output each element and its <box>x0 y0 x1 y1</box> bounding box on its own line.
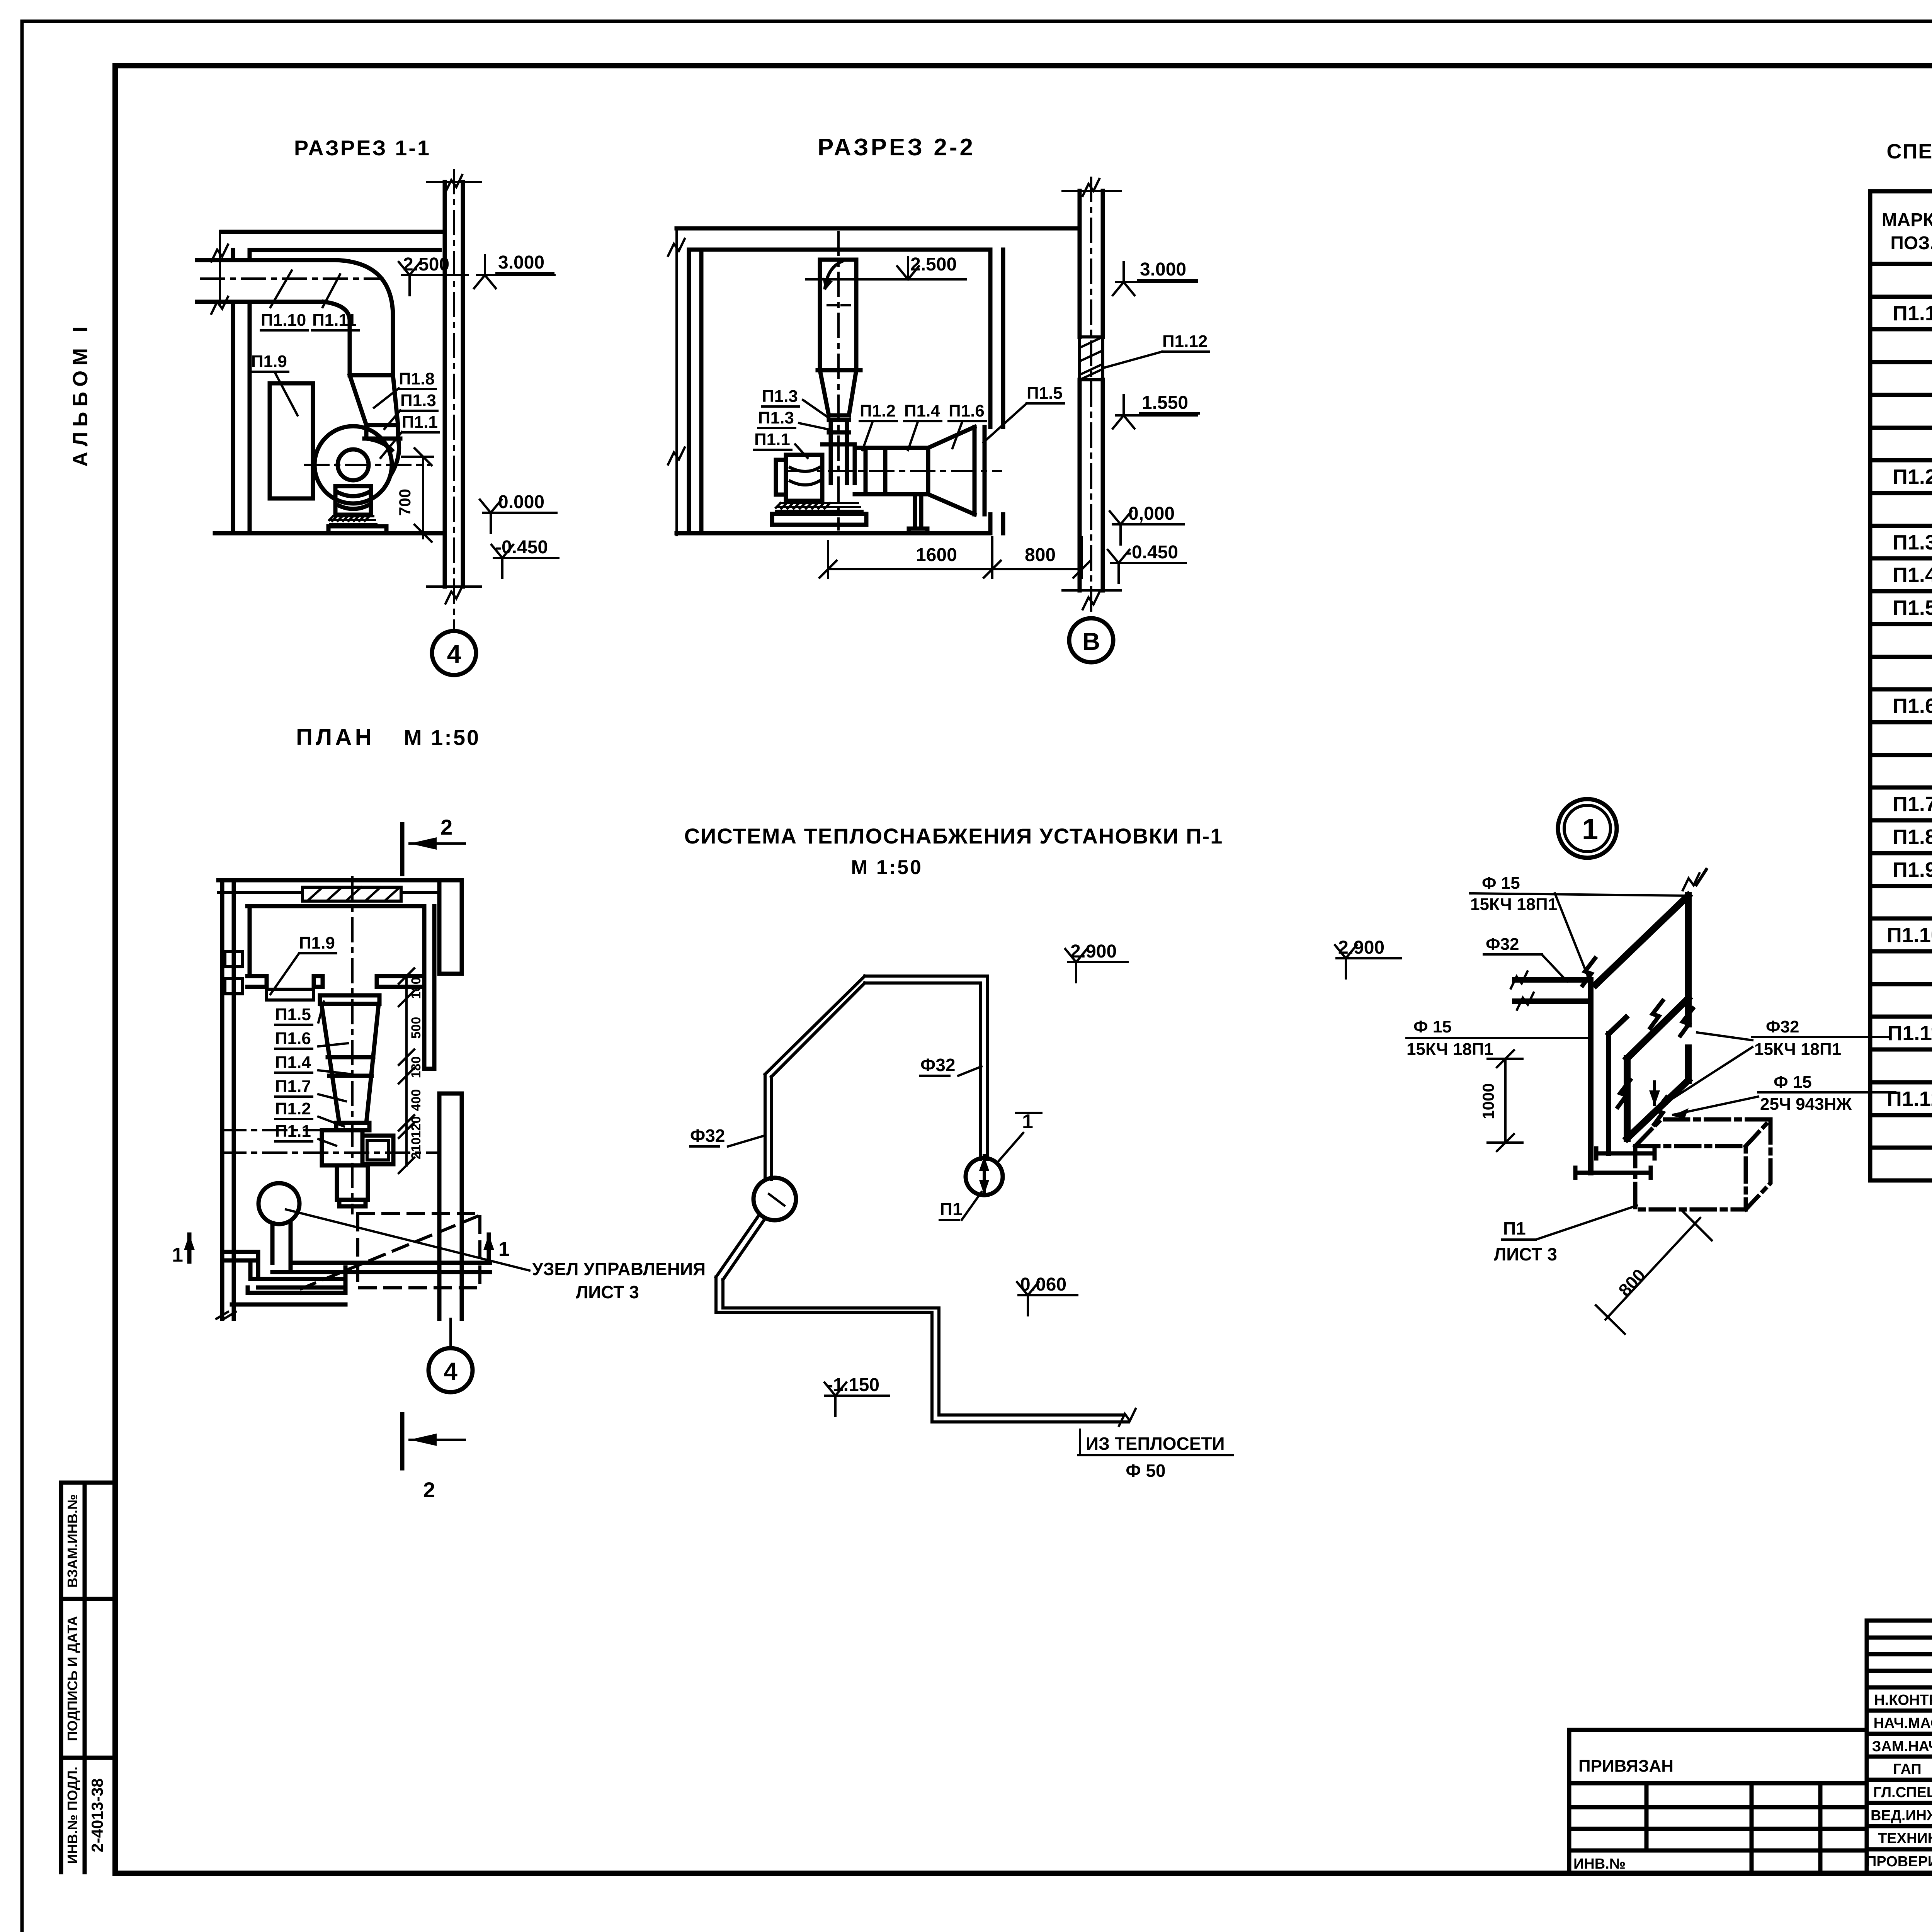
horizontal duct run: flex П1.2, kalorifer П1.4 <box>855 448 928 494</box>
PLAN M 1:50 <box>172 724 706 1502</box>
svg-text:РАЗРЕЗ 2-2: РАЗРЕЗ 2-2 <box>818 134 975 161</box>
horizontal supply duct <box>197 260 335 302</box>
section mark 2 bottom <box>400 1414 405 1468</box>
vertical duct <box>350 317 393 375</box>
specification table rows text <box>1887 269 1932 1143</box>
column on axis B <box>1080 191 1103 590</box>
svg-text:П1.8: П1.8 <box>399 369 435 388</box>
chamber inner walls <box>250 906 434 1069</box>
svg-text:П1.5: П1.5 <box>275 1005 311 1024</box>
svg-text:2.900: 2.900 <box>1070 941 1117 962</box>
flexible insert П1.3 <box>364 425 400 439</box>
signature rows text <box>1866 1692 1932 1870</box>
svg-text:П1.4: П1.4 <box>904 401 940 420</box>
svg-text:П1.5: П1.5 <box>1027 384 1063 403</box>
svg-text:П1.3: П1.3 <box>758 408 794 427</box>
svg-text:700: 700 <box>396 489 414 516</box>
stack axis <box>837 232 840 529</box>
door П1.9 <box>270 383 313 498</box>
svg-text:РАЗРЕЗ 1-1: РАЗРЕЗ 1-1 <box>294 136 431 160</box>
svg-text:400: 400 <box>409 1089 423 1111</box>
second riser (thin) <box>1609 1017 1626 1153</box>
DETAIL NODE 1 <box>1335 799 1895 1334</box>
svg-text:210: 210 <box>409 1138 423 1160</box>
svg-text:П1.3: П1.3 <box>762 387 798 406</box>
svg-text:П1.4: П1.4 <box>1893 563 1932 587</box>
svg-text:П1.1: П1.1 <box>402 413 438 432</box>
svg-text:П1.1: П1.1 <box>754 430 790 449</box>
fan flange plate <box>336 1123 369 1130</box>
support leg <box>909 494 927 533</box>
title block left extension table <box>1569 1730 1867 1872</box>
ceiling slab <box>677 228 1080 250</box>
dimension 1600 / 800 <box>828 537 1082 578</box>
axis circle 4 (plan) <box>449 1319 452 1348</box>
svg-text:П1.11: П1.11 <box>312 311 357 330</box>
svg-text:МАРКА: МАРКА <box>1882 210 1932 230</box>
svg-text:500: 500 <box>409 1017 423 1039</box>
panel left vertical <box>1624 1058 1631 1138</box>
svg-text:В: В <box>1082 628 1100 655</box>
svg-text:800: 800 <box>1025 545 1056 565</box>
svg-text:Ф 15: Ф 15 <box>1482 874 1520 893</box>
pipe run (double line) <box>865 976 988 1159</box>
svg-text:Ф32: Ф32 <box>920 1055 955 1075</box>
svg-text:-0.450: -0.450 <box>1126 542 1178 563</box>
svg-text:СПЕЦИФИКАЦИЯ ОТОПИТЕЛЬНО-ВЕНТ: СПЕЦИФИКАЦИЯ ОТОПИТЕЛЬНО-ВЕНТИЛЯЦИОННЫХ … <box>1886 140 1932 163</box>
left dim line with breaks <box>219 231 221 304</box>
svg-text:ЛИСТ 3: ЛИСТ 3 <box>576 1282 639 1302</box>
left wall <box>222 880 234 1319</box>
svg-text:-1.150: -1.150 <box>827 1375 879 1395</box>
svg-text:Н.КОНТР.: Н.КОНТР. <box>1874 1692 1932 1708</box>
svg-text:2.900: 2.900 <box>1338 937 1384 958</box>
svg-text:П1.1: П1.1 <box>275 1122 311 1141</box>
base plate <box>772 514 866 525</box>
wall end marks <box>216 1312 236 1319</box>
vibration isolators <box>776 503 862 511</box>
svg-text:ПОЗ.: ПОЗ. <box>1890 233 1932 253</box>
svg-text:П1.11: П1.11 <box>1888 1022 1932 1045</box>
motor under fan <box>335 486 371 515</box>
svg-text:П1.10: П1.10 <box>261 311 306 330</box>
vertical text АЛЬБОМ I <box>69 321 92 467</box>
svg-text:УЗЕЛ УПРАВЛЕНИЯ: УЗЕЛ УПРАВЛЕНИЯ <box>532 1259 706 1279</box>
svg-text:П1.12: П1.12 <box>1887 1087 1932 1111</box>
RAZREZ 1-1 <box>197 136 558 675</box>
leader to узел управления text <box>286 1209 529 1270</box>
floor line <box>215 531 440 536</box>
svg-text:1000: 1000 <box>1479 1083 1497 1119</box>
svg-text:П1.12: П1.12 <box>1162 332 1207 351</box>
top diagonal pipe <box>1596 896 1688 985</box>
right outer wall segments <box>439 880 462 1319</box>
svg-text:120: 120 <box>409 1116 423 1138</box>
svg-text:1: 1 <box>172 1244 183 1266</box>
section marks 1 <box>187 1235 192 1262</box>
panel bottom diagonal <box>1627 1080 1688 1138</box>
svg-text:2-4013-38: 2-4013-38 <box>88 1778 106 1852</box>
supply pipes from left <box>1515 980 1591 1001</box>
svg-text:П1.7: П1.7 <box>275 1077 311 1096</box>
svg-text:П1.2: П1.2 <box>1893 465 1932 488</box>
svg-text:П1.2: П1.2 <box>860 401 896 420</box>
valve П1 circle with arrow <box>966 1158 1003 1195</box>
base plate <box>328 526 386 533</box>
vibration isolators <box>329 516 376 524</box>
svg-text:0,000: 0,000 <box>1128 503 1175 524</box>
svg-text:15КЧ 18П1: 15КЧ 18П1 <box>1406 1040 1493 1059</box>
left thin line with breaks <box>675 228 678 535</box>
left wall <box>689 250 701 533</box>
specification table grid <box>1870 191 1932 1180</box>
svg-text:1600: 1600 <box>916 545 957 565</box>
svg-text:П1.9: П1.9 <box>299 934 335 952</box>
specification table header <box>1882 210 1932 253</box>
svg-text:ГАП: ГАП <box>1893 1761 1921 1777</box>
flow arrow on bottom diagonal <box>1653 1082 1656 1104</box>
svg-text:ПРОВЕРИЛ: ПРОВЕРИЛ <box>1866 1854 1932 1870</box>
svg-text:0.060: 0.060 <box>1020 1274 1066 1295</box>
svg-text:15КЧ 18П1: 15КЧ 18П1 <box>1754 1040 1841 1059</box>
column on axis 4 <box>445 182 463 587</box>
svg-text:-0.450: -0.450 <box>495 537 548 558</box>
svg-text:ИЗ ТЕПЛОСЕТИ: ИЗ ТЕПЛОСЕТИ <box>1086 1434 1225 1454</box>
RAZREZ 2-2 <box>668 134 1209 662</box>
door П1.9 leaf <box>267 989 314 1000</box>
top wall band <box>218 880 462 906</box>
transition cone (plan) <box>321 1004 379 1123</box>
exhaust stack duct <box>818 260 861 432</box>
svg-text:2.500: 2.500 <box>403 254 449 275</box>
svg-text:ИНВ.№ ПОДЛ.: ИНВ.№ ПОДЛ. <box>65 1767 80 1864</box>
svg-text:СИСТЕМА ТЕПЛОСНАБЖЕНИЯ УСТАНОВ: СИСТЕМА ТЕПЛОСНАБЖЕНИЯ УСТАНОВКИ П-1 <box>684 824 1223 848</box>
dim 700 <box>402 448 433 542</box>
svg-text:3.000: 3.000 <box>498 252 544 273</box>
right wall with damper <box>990 250 1003 533</box>
grille П1.12 hatched <box>1080 337 1103 380</box>
fan centerline <box>305 464 429 466</box>
south chamber wall with openings <box>247 976 424 987</box>
fan П1.1 scroll <box>315 426 392 503</box>
svg-text:П1.3: П1.3 <box>400 391 436 410</box>
riser vertical <box>1588 980 1594 1173</box>
outlet below fan (plan) <box>337 1165 368 1206</box>
motor (plan) <box>362 1136 393 1164</box>
svg-text:Ф32: Ф32 <box>690 1126 725 1146</box>
svg-text:15КЧ 18П1: 15КЧ 18П1 <box>1470 895 1557 914</box>
pipes near control unit <box>222 1222 490 1304</box>
svg-text:0.000: 0.000 <box>498 492 544 512</box>
panel right vertical <box>1685 896 1692 1080</box>
title block signature table <box>1867 1621 1932 1872</box>
svg-text:2: 2 <box>440 815 452 839</box>
second riser bottom tee <box>1596 1148 1655 1158</box>
svg-text:ИНВ.№: ИНВ.№ <box>1573 1856 1626 1872</box>
svg-text:ЗАМ.НАЧ.: ЗАМ.НАЧ. <box>1872 1738 1932 1755</box>
svg-text:АЛЬБОМ I: АЛЬБОМ I <box>69 321 92 467</box>
svg-text:П1: П1 <box>1503 1218 1526 1238</box>
svg-text:4: 4 <box>444 1357 457 1385</box>
svg-text:ПРИВЯЗАН: ПРИВЯЗАН <box>1578 1757 1673 1776</box>
unit centerline vertical <box>351 877 354 1213</box>
svg-text:П1.8: П1.8 <box>1893 825 1932 849</box>
valve on right vertical <box>1680 1009 1693 1036</box>
detail circle 1 <box>1558 799 1617 858</box>
dashed base frame <box>358 1213 480 1288</box>
dash-dot unit box <box>1635 1119 1770 1209</box>
svg-text:ПОДПИСЬ И ДАТА: ПОДПИСЬ И ДАТА <box>65 1616 80 1741</box>
axis circle 4 <box>432 631 476 675</box>
svg-text:П1.6: П1.6 <box>949 401 985 420</box>
svg-text:Ф 50: Ф 50 <box>1126 1461 1165 1481</box>
svg-text:2.500: 2.500 <box>910 254 957 275</box>
svg-text:ГЛ.СПЕЦ.: ГЛ.СПЕЦ. <box>1873 1784 1932 1801</box>
svg-text:Ф32: Ф32 <box>1766 1017 1799 1036</box>
svg-text:2: 2 <box>423 1478 435 1502</box>
svg-text:ВЕД.ИНЖ.: ВЕД.ИНЖ. <box>1871 1808 1932 1824</box>
axis circle B <box>1069 618 1113 662</box>
left margin stamp table <box>61 1483 115 1872</box>
grille opening hatched <box>303 887 401 901</box>
svg-text:1.550: 1.550 <box>1142 393 1188 413</box>
svg-text:180: 180 <box>409 1056 423 1078</box>
ceiling slab lines <box>221 232 441 250</box>
dim 1000 <box>1488 1050 1522 1151</box>
svg-text:П1.7: П1.7 <box>1893 793 1932 816</box>
svg-text:25Ч 943НЖ: 25Ч 943НЖ <box>1760 1095 1852 1114</box>
duct axis <box>201 277 383 280</box>
panel middle bar diagonal <box>1627 998 1688 1058</box>
svg-text:ВЗАМ.ИНВ.№: ВЗАМ.ИНВ.№ <box>65 1494 80 1588</box>
svg-text:1: 1 <box>498 1238 510 1260</box>
svg-text:П1.6: П1.6 <box>1893 694 1932 718</box>
svg-text:Ф 15: Ф 15 <box>1413 1017 1452 1036</box>
transition П1.6 to damper П1.5 <box>928 427 985 514</box>
svg-text:П1.6: П1.6 <box>275 1029 311 1048</box>
svg-text:М 1:50: М 1:50 <box>404 725 480 750</box>
svg-text:П1.3: П1.3 <box>1893 531 1932 554</box>
svg-text:П1.10: П1.10 <box>1887 923 1932 947</box>
left wall <box>233 250 250 533</box>
transition П1.8 <box>350 375 398 425</box>
узел управления circle (schematic) <box>753 1178 796 1220</box>
column axis line <box>1090 178 1092 618</box>
svg-text:П1.5: П1.5 <box>1893 596 1932 619</box>
svg-text:4: 4 <box>447 639 461 668</box>
svg-text:ТЕХНИК: ТЕХНИК <box>1878 1830 1932 1847</box>
svg-text:3.000: 3.000 <box>1140 259 1186 280</box>
control unit circle <box>259 1183 299 1224</box>
svg-text:П1.2: П1.2 <box>275 1099 311 1118</box>
svg-text:П1.1: П1.1 <box>1893 302 1932 325</box>
svg-text:ЛИСТ 3: ЛИСТ 3 <box>1494 1244 1557 1264</box>
svg-text:П1.9: П1.9 <box>251 352 287 371</box>
column axis line <box>453 170 455 630</box>
svg-text:1: 1 <box>1582 813 1598 846</box>
svg-text:П1.4: П1.4 <box>275 1053 311 1072</box>
dim 800 diagonal <box>1596 1211 1712 1334</box>
damper plate П1.5 (plan) <box>320 995 379 1004</box>
svg-text:М 1:50: М 1:50 <box>851 856 923 879</box>
stack inner line <box>825 261 842 288</box>
fan box (plan) <box>322 1130 362 1165</box>
svg-text:ПЛАН: ПЛАН <box>296 724 375 750</box>
riser bottom tee <box>1575 1168 1651 1178</box>
fan and motor block <box>776 444 855 501</box>
svg-text:П1.9: П1.9 <box>1893 858 1932 881</box>
specification title <box>1886 140 1932 163</box>
small dimension chain <box>405 976 408 1165</box>
svg-text:П1: П1 <box>940 1199 963 1219</box>
svg-text:Ф32: Ф32 <box>1486 935 1519 954</box>
duct run axis <box>788 470 1001 472</box>
HEATING SYSTEM DIAGRAM <box>684 824 1233 1481</box>
fan axes horizontal <box>222 1130 437 1153</box>
svg-text:НАЧ.МАС: НАЧ.МАС <box>1874 1715 1932 1731</box>
fan outlet below flex <box>831 432 847 483</box>
svg-text:160: 160 <box>409 977 423 999</box>
floor <box>677 531 990 536</box>
small wall boxes <box>225 951 243 994</box>
svg-text:Ф 15: Ф 15 <box>1774 1073 1812 1092</box>
section mark 2 top <box>400 824 405 874</box>
valve at riser top <box>1583 958 1595 985</box>
duct elbow down <box>324 260 393 321</box>
